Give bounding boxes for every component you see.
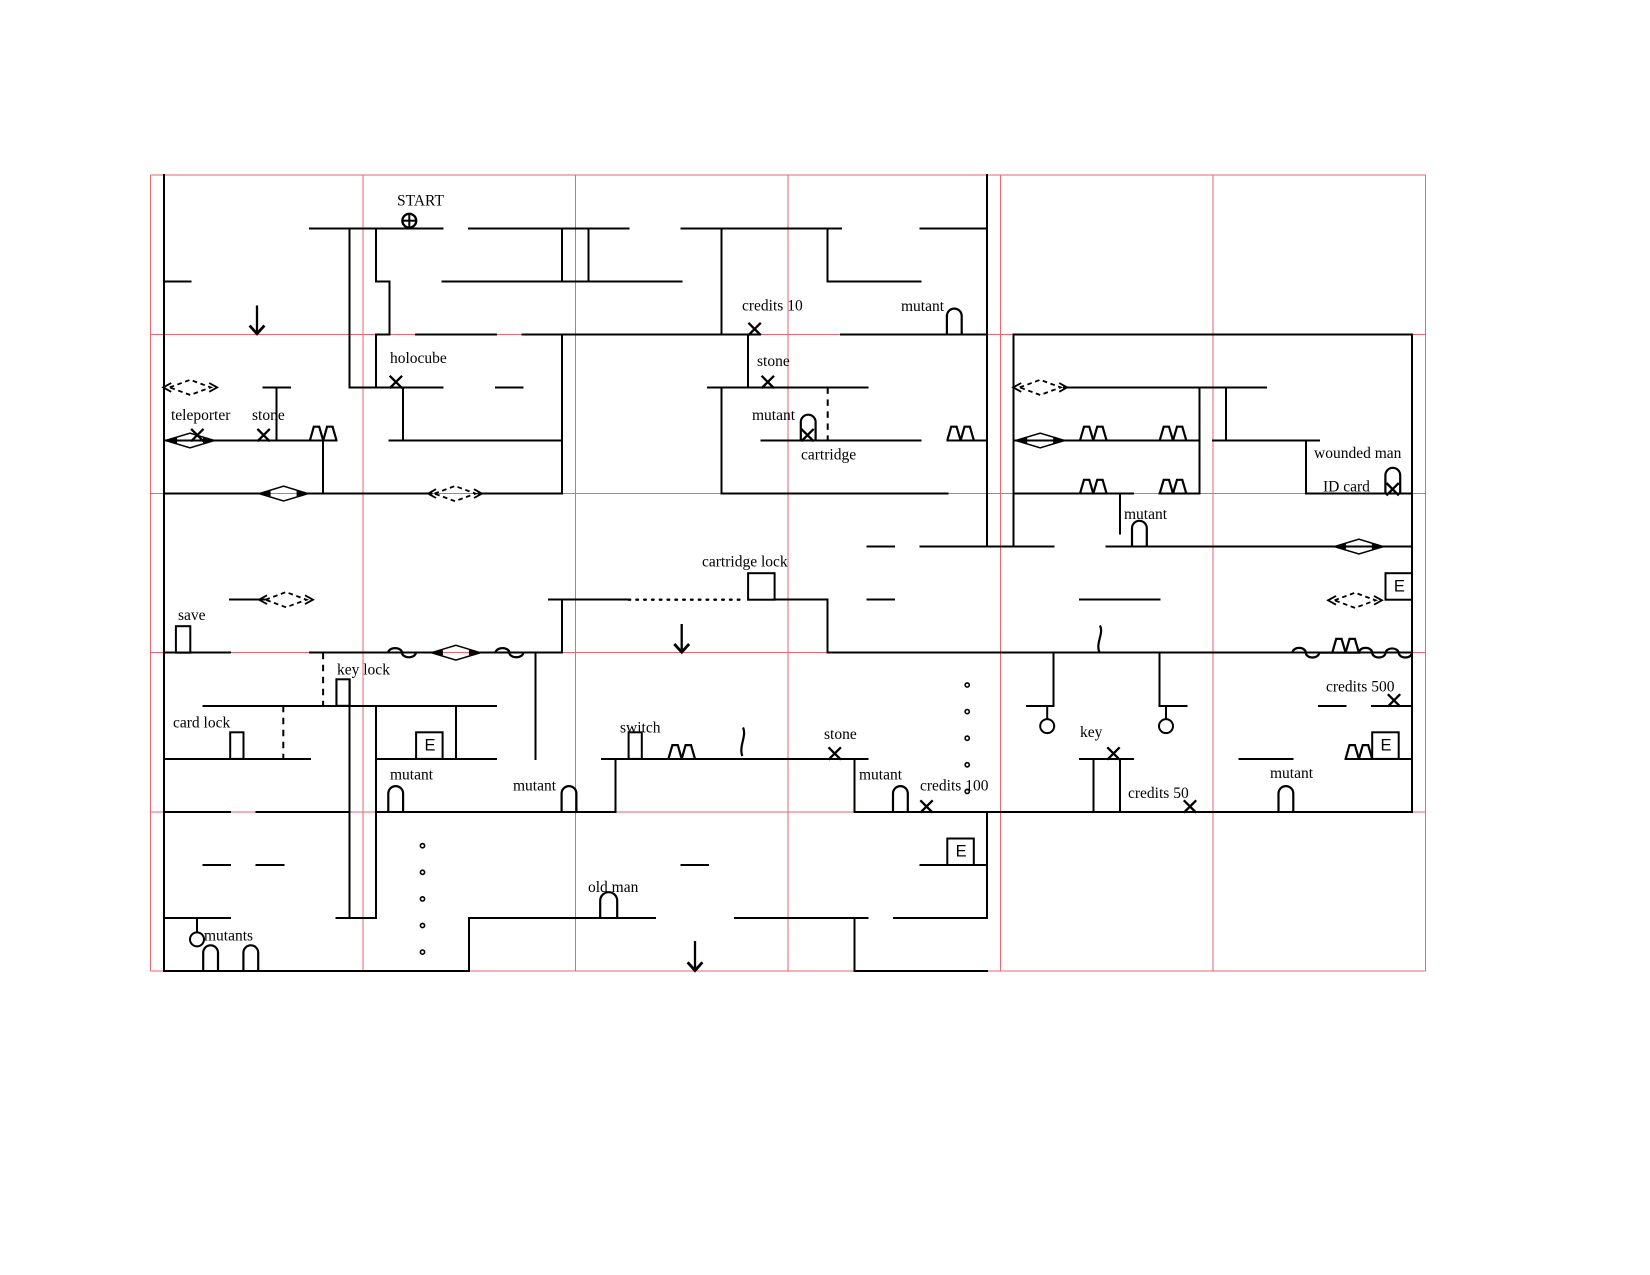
- svg-text:old man: old man: [588, 879, 639, 896]
- down arrow (old man room): [688, 941, 703, 971]
- wall horizontal row m=52 cols 58-63: [921, 864, 987, 866]
- wall vertical col n=14 rows 38-40: [335, 679, 337, 706]
- wall vertical col n=71 rows 44-48: [1092, 759, 1094, 812]
- rubble (credits-500 room): [1346, 745, 1373, 759]
- wall vertical col n=68 rows 36-40: [1053, 653, 1055, 706]
- wall vertical col n=35 rows 44-48: [614, 759, 616, 812]
- wall horizontal row m=60 cols 53-63: [854, 970, 987, 972]
- wall horizontal row m=48 cols 8-15: [257, 811, 350, 813]
- wall vertical col n=23 rows 40-44: [455, 706, 457, 759]
- teleport destination (exit E room): [1328, 593, 1382, 608]
- wall horizontal row m=8 cols 22-40: [443, 280, 682, 282]
- wall vertical col n=43 rows 4-12: [721, 228, 723, 334]
- wall horizontal row m=40 cols 66-68: [1027, 705, 1054, 707]
- svg-text:mutant: mutant: [752, 407, 796, 424]
- svg-text:E: E: [424, 737, 435, 755]
- wall horizontal row m=36 cols 51-95: [828, 652, 1412, 654]
- mutant arch (switch room left): [562, 786, 577, 812]
- wall vertical col n=17 rows 40-56: [375, 706, 377, 918]
- cartridge dashed door: [827, 387, 829, 440]
- wall horizontal row m=28 cols 72-95: [1107, 546, 1412, 548]
- wall horizontal row m=56 cols 1-6: [164, 917, 230, 919]
- svg-text:key lock: key lock: [337, 662, 390, 679]
- rubble (cartridge room right): [947, 427, 974, 441]
- wall vertical col n=15 rows 4-16: [349, 228, 351, 387]
- wall horizontal row m=8 cols 51-58: [828, 280, 921, 282]
- wall horizontal row m=8 cols 1-3: [164, 280, 191, 282]
- wall vertical col n=45 rows 12-16: [747, 334, 749, 387]
- wall horizontal row m=24 cols 76-79: [1160, 493, 1200, 495]
- svg-text:wounded man: wounded man: [1314, 445, 1402, 462]
- teleport destination (c4 ledge): [1013, 380, 1067, 395]
- card lock dashed door: [282, 706, 284, 759]
- map screen grid (red): [151, 175, 1426, 971]
- svg-text:mutant: mutant: [1270, 765, 1314, 782]
- svg-text:card lock: card lock: [173, 715, 230, 732]
- svg-text:credits 50: credits 50: [1128, 785, 1189, 802]
- wall vertical col n=51 rows 32-36: [827, 600, 829, 653]
- svg-text:cartridge lock: cartridge lock: [702, 554, 788, 571]
- svg-text:stone: stone: [824, 726, 857, 743]
- svg-text:credits 100: credits 100: [920, 778, 989, 795]
- drip squiggle (switch room): [741, 728, 744, 757]
- wall horizontal row m=28 cols 58-68: [921, 546, 1054, 548]
- rubble c4 upper-left: [1080, 427, 1107, 441]
- wall horizontal row m=32 cols 47-51: [775, 599, 828, 601]
- wall horizontal row m=32 cols 30-36: [549, 599, 629, 601]
- svg-text:teleporter: teleporter: [171, 407, 231, 424]
- wall horizontal row m=56 cols 14-17: [336, 917, 376, 919]
- wall vertical col n=19 rows 16-20: [402, 387, 404, 440]
- hanging droid (mutants room): [190, 918, 204, 946]
- wall horizontal row m=44 cols 90-95: [1346, 758, 1412, 760]
- wall vertical col n=17 rows 4-8: [375, 228, 377, 281]
- teleporter pad (c4 room): [1016, 433, 1065, 448]
- wall horizontal row m=48 cols 1-6: [164, 811, 230, 813]
- wall horizontal row m=36 cols 1-6: [164, 652, 230, 654]
- teleport destination (save room): [259, 592, 313, 607]
- acid wave (pool room left): [388, 648, 416, 657]
- wounded man arch: [1385, 468, 1400, 494]
- wall vertical col n=1 rows 0-60: [163, 175, 165, 971]
- dotted fall trail (credits-100 room): [965, 683, 969, 794]
- wall vertical col n=81 rows 16-20: [1225, 387, 1227, 440]
- svg-text:E: E: [1394, 577, 1405, 595]
- START marker (circled plus): [402, 213, 416, 227]
- switch box: [629, 732, 642, 759]
- wall horizontal row m=60 cols 1-24: [164, 970, 469, 972]
- item cross credits-500: [1388, 694, 1400, 706]
- wall horizontal row m=12 cols 28-45.75: [522, 333, 758, 335]
- svg-text:credits 500: credits 500: [1326, 679, 1395, 696]
- item cross ID card: [1386, 483, 1398, 495]
- wall horizontal row m=36 cols 12-21.15: [310, 652, 432, 654]
- teleporter pad (acid pool room): [431, 645, 480, 660]
- wall horizontal row m=20 cols 60-63: [947, 440, 987, 442]
- wall horizontal row m=52 cols 4-6: [204, 864, 231, 866]
- wall horizontal row m=28 cols 54-56: [868, 546, 895, 548]
- wall horizontal row m=44 cols 70-74: [1080, 758, 1133, 760]
- svg-text:START: START: [397, 193, 444, 210]
- wall horizontal row m=16 cols 42-54: [708, 386, 867, 388]
- wall horizontal row m=48 cols 53-95: [854, 811, 1412, 813]
- wall horizontal row m=56 cols 24-38: [469, 917, 655, 919]
- wall horizontal row m=12 cols 20-26: [416, 333, 496, 335]
- wall vertical col n=9.5 rows 16-20: [276, 387, 278, 440]
- item cross credits-10: [748, 323, 760, 335]
- svg-text:mutant: mutant: [859, 767, 903, 784]
- wall vertical col n=33 rows 4-8: [588, 228, 590, 281]
- rubble c4 upper-right: [1160, 427, 1187, 441]
- wall vertical col n=43 rows 16-24: [721, 387, 723, 493]
- mutants arch 1: [203, 945, 218, 971]
- item cross stone (switch room): [829, 747, 841, 759]
- svg-text:E: E: [1381, 737, 1392, 755]
- wall vertical col n=15 rows 38-56: [349, 679, 351, 918]
- wall horizontal row m=16 cols 26-28: [496, 386, 523, 388]
- svg-text:E: E: [956, 843, 967, 861]
- svg-text:key: key: [1080, 724, 1103, 741]
- mutant arch (credits-50 room): [1279, 786, 1294, 812]
- wall vertical col n=31 rows 4-8: [561, 228, 563, 281]
- svg-text:stone: stone: [252, 407, 285, 424]
- wall vertical col n=76 rows 36-40: [1159, 653, 1161, 706]
- wall horizontal row m=24 cols 65-74: [1014, 493, 1134, 495]
- rubble (teleporter room): [310, 427, 337, 441]
- wall horizontal row m=40 cols 88-90: [1319, 705, 1346, 707]
- wall horizontal row m=52 cols 8-10: [257, 864, 284, 866]
- mutant arch (credits-100 room): [893, 786, 908, 812]
- wall horizontal row m=16 cols 68.8-84: [1064, 386, 1266, 388]
- wall vertical col n=17 rows 12-16: [375, 334, 377, 387]
- cartridge lock pedestal: [748, 573, 775, 600]
- wall horizontal row m=20 cols 18-31: [390, 440, 563, 442]
- wall vertical col n=65 rows 12-28: [1013, 334, 1015, 546]
- rubble c4 lower-right: [1160, 480, 1187, 494]
- mutant arch (start corridor): [947, 309, 962, 335]
- wall horizontal row m=12 cols 17-18: [376, 333, 389, 335]
- wall horizontal row m=16 cols 15-22: [350, 386, 443, 388]
- teleport destination (corridor c1): [428, 486, 482, 501]
- wall vertical col n=63 rows 0-28: [986, 175, 988, 546]
- wall vertical col n=31 rows 32-36: [561, 600, 563, 653]
- item cross key: [1107, 747, 1119, 759]
- wall vertical col n=73 rows 44-48: [1119, 759, 1121, 812]
- wall horizontal row m=20 cols 46-58: [761, 440, 920, 442]
- item cross stone (teleporter room): [257, 429, 269, 441]
- svg-text:stone: stone: [757, 353, 790, 370]
- wall vertical col n=53 rows 56-60: [853, 918, 855, 971]
- wall horizontal row m=40 cols 92-95: [1372, 705, 1412, 707]
- mutant arch (cartridge room): [801, 415, 816, 441]
- svg-text:holocube: holocube: [390, 350, 447, 367]
- wall horizontal row m=24 cols 11.87-21.16: [308, 493, 431, 495]
- wall vertical col n=95 rows 12-48: [1411, 334, 1413, 812]
- wall horizontal row m=36 cols 24.84-31: [480, 652, 562, 654]
- item cross teleporter: [191, 429, 203, 441]
- wall horizontal row m=40 cols 76-78: [1160, 705, 1187, 707]
- wall horizontal row m=56 cols 44-54: [735, 917, 868, 919]
- wall vertical col n=29 rows 36-44: [535, 653, 537, 759]
- wall vertical col n=87 rows 20-24: [1305, 441, 1307, 494]
- item cross cartridge: [801, 429, 813, 441]
- down arrow (cartridge lock room): [674, 624, 689, 652]
- key lock dashed door: [322, 653, 324, 706]
- wall horizontal row m=56 cols 56-63: [894, 917, 987, 919]
- acid wave (pool room right): [496, 648, 524, 657]
- card lock box: [230, 732, 243, 759]
- wall horizontal row m=12 cols 65-95: [1014, 333, 1412, 335]
- exit box E room credits-100: [947, 839, 974, 866]
- teleporter pad (lower corridor c1): [259, 486, 308, 501]
- svg-text:save: save: [178, 607, 206, 624]
- wall horizontal row m=4 cols 58-63: [921, 227, 987, 229]
- rubble c4 lower-left: [1080, 480, 1107, 494]
- wall horizontal row m=20 cols 1-14: [164, 440, 337, 442]
- down arrow (left shaft): [250, 306, 265, 334]
- wall horizontal row m=32 cols 54-56: [868, 599, 895, 601]
- wall vertical col n=73 rows 24-27: [1119, 494, 1121, 534]
- teleporter pad (dark room): [1334, 539, 1383, 554]
- wall horizontal row m=40 cols 4-26: [204, 705, 496, 707]
- svg-text:switch: switch: [620, 720, 661, 737]
- wall horizontal row m=20 cols 65-79: [1014, 440, 1200, 442]
- wall horizontal row m=4 cols 24-36: [469, 227, 628, 229]
- wall horizontal row m=24 cols 87-95: [1306, 493, 1412, 495]
- wall vertical col n=51 rows 4-8: [827, 228, 829, 281]
- item cross credits-100: [920, 800, 932, 812]
- save point box: [176, 626, 190, 653]
- wall vertical col n=31 rows 12-24: [561, 334, 563, 493]
- old man arch: [600, 892, 617, 918]
- teleport destination (teleporter room): [163, 380, 217, 395]
- item cross holocube: [390, 376, 402, 388]
- wall horizontal row m=32 cols 70-76: [1080, 599, 1160, 601]
- exit box E room credits-500: [1372, 732, 1399, 759]
- svg-text:mutant: mutant: [1124, 506, 1168, 523]
- svg-text:mutants: mutants: [204, 928, 253, 945]
- wall horizontal row m=4 cols 40-52: [682, 227, 841, 229]
- drip squiggle (over acid c5): [1098, 626, 1101, 653]
- svg-text:mutant: mutant: [513, 778, 557, 795]
- svg-text:mutant: mutant: [901, 298, 945, 315]
- wall vertical col n=18 rows 8-12: [389, 281, 391, 334]
- wall horizontal row m=24 cols 1-8.18: [164, 493, 259, 495]
- wall horizontal row m=52 cols 40-42: [682, 864, 709, 866]
- svg-text:mutant: mutant: [390, 767, 434, 784]
- svg-text:cartridge: cartridge: [801, 447, 856, 464]
- wall horizontal row m=24 cols 43-60: [722, 493, 948, 495]
- wall horizontal row m=4 cols 12-22: [310, 227, 443, 229]
- mutants arch 2: [243, 945, 258, 971]
- mutant arch (dark room): [1132, 521, 1147, 547]
- exit box E room wounded-man: [1386, 573, 1413, 600]
- wall vertical col n=63 rows 48-56: [986, 812, 988, 918]
- wall horizontal row m=24 cols 24.7-31: [479, 493, 563, 495]
- hanging droid (key room right): [1159, 706, 1173, 733]
- wall horizontal row m=44 cols 82-86: [1239, 758, 1292, 760]
- rubble (switch room): [668, 745, 695, 759]
- wall horizontal row m=48 cols 17-35: [376, 811, 615, 813]
- wall horizontal row m=16 cols 8.5-10.5: [263, 386, 290, 388]
- hanging droid (key room left): [1040, 706, 1054, 733]
- wall horizontal row m=44 cols 1-12: [164, 758, 310, 760]
- wall horizontal row m=8 cols 17-18: [376, 280, 389, 282]
- wall horizontal row m=44 cols 17-26: [376, 758, 496, 760]
- acid pool surface (credits-500 room): [1293, 648, 1413, 658]
- wall horizontal row m=32 cols 6-8.6: [230, 599, 265, 601]
- rubble (acid pool c5): [1332, 639, 1359, 653]
- wall horizontal row m=12 cols 52-63: [841, 333, 987, 335]
- wall vertical col n=13 rows 20-24: [322, 441, 324, 494]
- svg-text:ID card: ID card: [1323, 479, 1370, 496]
- wall vertical col n=79 rows 16-24: [1199, 387, 1201, 493]
- dotted floor (cartridge lock bridge): [629, 599, 742, 601]
- dotted fall trail (mutants room): [420, 844, 424, 955]
- wall vertical col n=53 rows 44-48: [853, 759, 855, 812]
- wall horizontal row m=20 cols 80-88: [1213, 440, 1319, 442]
- wall horizontal row m=44 cols 34-54: [602, 758, 868, 760]
- exit box E room card-lock: [416, 732, 443, 759]
- key lock box: [336, 679, 349, 706]
- wall vertical col n=24 rows 56-60: [468, 918, 470, 971]
- item cross credits-50: [1184, 800, 1196, 812]
- item cross stone (first floor): [762, 376, 774, 388]
- teleporter pad (teleporter room): [166, 433, 215, 448]
- svg-text:credits 10: credits 10: [742, 298, 803, 315]
- mutant arch (card lock room): [388, 786, 403, 812]
